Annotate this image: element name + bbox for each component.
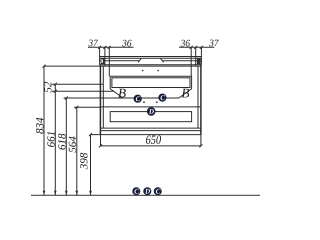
dimension 650 left extension (100, 131, 102, 146)
dimension 564 vertical line (76, 107, 78, 195)
leader dot right (156, 101, 158, 103)
dim text 37 right (209, 40, 219, 47)
cabinet bottom line 3 (91, 134, 201, 136)
cabinet left side (99, 65, 101, 135)
cabinet box top edge (100, 65, 200, 67)
dimension 834 floor arrow (43, 191, 46, 196)
top dim tick 1 (98, 46, 101, 49)
basin bump right slant (160, 58, 163, 62)
dim text 37 left (88, 40, 98, 47)
badge D drawer (147, 107, 156, 116)
dimension 650 line (101, 145, 201, 147)
dim text 36 right (181, 40, 190, 47)
top dimension line left segment (88, 46, 134, 48)
dimension 834 vertical line (43, 66, 45, 195)
dimension 52 bottom extension line (52, 90, 113, 92)
dimension 618 vertical line (65, 98, 67, 195)
leader dot left (143, 101, 145, 103)
top extension line 2 (104, 47, 106, 66)
dimension 398 vertical line (90, 135, 92, 196)
dim text 650 (146, 135, 161, 144)
label B left (118, 89, 126, 98)
cabinet left side inner line (102, 66, 104, 128)
basin bump left slant (138, 58, 141, 62)
upper drawer front inner line (112, 78, 190, 88)
countertop fixing dot right (157, 70, 159, 72)
cabinet right side (200, 65, 202, 135)
right mounting bracket (197, 58, 201, 64)
floor line (31, 194, 260, 196)
cabinet bottom line 2 (100, 130, 200, 132)
dimension 564 extension line (74, 106, 100, 108)
dimension 564 floor arrow (76, 191, 79, 196)
dimension 52 top extension line (52, 83, 103, 85)
dimension 618 floor arrow (65, 191, 68, 196)
badge C floor left (132, 187, 140, 195)
cabinet right side inner line (197, 66, 199, 128)
top dim tick 3 (108, 46, 111, 49)
countertop inner line right segment (163, 60, 202, 62)
countertop fixing dot left (142, 70, 144, 72)
dim text 398 (80, 153, 87, 169)
top dimension line right segment (179, 46, 214, 48)
dimension 398 floor arrow (89, 191, 92, 196)
dim text 618 (58, 134, 65, 150)
dimension 650 tick left (99, 144, 102, 147)
dim text 564 (69, 136, 76, 152)
dim text 661 (47, 132, 54, 147)
dimension 650 right extension (200, 135, 202, 146)
upper drawer front outline (110, 76, 191, 98)
dimension 834 top tick (43, 65, 46, 68)
top extension line 4 (190, 47, 192, 76)
dimension 834 extension line (44, 65, 100, 67)
top extension line 6 (200, 47, 202, 56)
dimension 52 tick bottom (54, 90, 57, 93)
left mounting bracket (101, 58, 105, 64)
dimension 52 and 661 shared vertical line (54, 84, 56, 195)
drawer divider line (100, 106, 200, 108)
dimension 618 extension line (64, 97, 124, 99)
badge C drawer right (158, 94, 166, 102)
dimension 398 top tick (89, 133, 92, 136)
top extension line 5 (195, 47, 197, 66)
dimension 618 top tick (65, 97, 68, 100)
dimension 52 tick top (54, 83, 57, 86)
countertop inner line left segment (100, 60, 140, 62)
dimension 661 floor arrow (54, 191, 57, 196)
top extension line 1 (99, 47, 101, 56)
dimension 650 tick right (199, 144, 202, 147)
label B right (182, 89, 190, 98)
badge C drawer left (134, 95, 142, 103)
badge D floor middle (143, 187, 151, 195)
badge C floor right (154, 187, 162, 195)
dim text 52 (44, 82, 51, 93)
dim text 834 (36, 118, 43, 134)
top extension line 3 (108, 47, 110, 76)
dimension 564 top tick (75, 106, 78, 109)
countertop outline (100, 56, 202, 65)
cabinet bottom line 1 (100, 127, 200, 129)
dim text 36 left (122, 40, 131, 47)
top dim tick 2 (103, 46, 106, 49)
top dim tick 6 (200, 46, 203, 49)
countertop second edge line (100, 57, 202, 59)
lower drawer inner rectangle (110, 112, 191, 122)
top dim tick 5 (194, 46, 197, 49)
top dim tick 4 (190, 46, 193, 49)
